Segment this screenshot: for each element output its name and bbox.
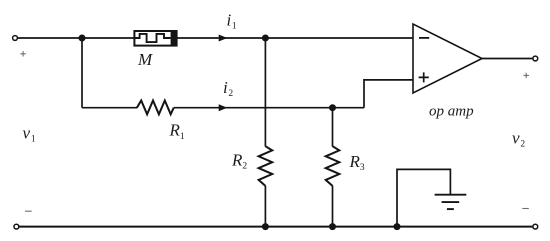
arrow i1 [219,35,226,41]
resistor R1 [137,101,174,115]
svg-text:R1: R1 [169,121,185,142]
terminal output + [533,56,538,61]
wire node B down to R2 [264,38,266,147]
resistor R2 [259,146,273,186]
label - (input minus) [25,210,32,212]
wire R2 to bottom rail [264,186,266,227]
svg-text:op amp: op amp [429,104,474,120]
wire top rail v1+ to op-amp inverting input [17,37,413,39]
label - (output minus) [522,208,529,210]
node C junction (i2 / R3) [329,104,336,111]
wire ground branch [397,169,450,226]
node D junction (R2 / bottom rail) [262,223,269,230]
wire i2 left segment [82,107,137,109]
node E junction (R3 / bottom rail) [329,223,336,230]
wire i2 right segment to jog [174,107,364,109]
ground [435,195,467,209]
svg-text:R3: R3 [349,152,365,173]
node A junction [79,35,86,42]
terminal bottom left [14,224,19,229]
svg-text:R2: R2 [231,150,247,171]
arrow i2 [219,105,226,111]
wire jog up to op-amp non-inverting input [364,80,413,108]
op-amp U1 [413,24,482,93]
svg-text:v2: v2 [512,128,525,149]
terminal input + [13,36,18,41]
wire node A down to i2 branch [81,38,83,108]
wire R3 to bottom rail [332,186,334,227]
svg-text:v1: v1 [23,123,36,144]
node B junction (top rail / R2) [262,35,269,42]
wire bottom rail [19,226,533,228]
node F junction (ground branch / bottom rail) [394,223,401,230]
label + (input plus) [20,51,25,56]
terminal bottom right [533,224,538,229]
memristor M [134,30,177,46]
resistor R3 [326,146,340,186]
svg-text:i1: i1 [227,10,237,31]
label + (output plus) [524,73,529,78]
svg-text:M: M [137,50,153,69]
svg-text:i2: i2 [223,78,233,99]
wire op-amp output [482,58,533,60]
wire node C down to R3 [332,108,334,147]
